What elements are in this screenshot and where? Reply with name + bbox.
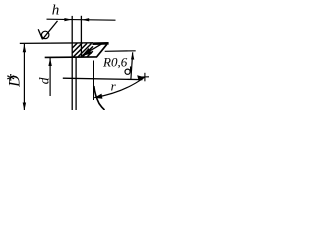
svg-text:*: * xyxy=(5,70,14,90)
node center mark horizontal xyxy=(141,76,149,78)
wire D* dimension line xyxy=(23,44,25,110)
arrow D* up xyxy=(23,44,26,52)
wire R0,6 shelf line xyxy=(105,50,136,53)
wire top surface line D level xyxy=(20,42,93,45)
svg-text:d: d xyxy=(37,77,52,84)
label b rotated small xyxy=(125,66,131,74)
arrow D* down xyxy=(23,103,26,111)
wire d dimension line xyxy=(49,58,51,96)
arrowheads xyxy=(23,18,145,111)
wire radius r line xyxy=(94,77,144,97)
arrow h right xyxy=(82,18,89,21)
svg-text:R0,6: R0,6 xyxy=(102,55,128,70)
arrow r at arc xyxy=(94,94,102,99)
wire right small dimension line xyxy=(131,52,133,79)
arrow R0,6 leader xyxy=(82,48,92,56)
wire dimension line h xyxy=(47,19,116,20)
wire extension line right (groove face) xyxy=(80,16,82,57)
node center mark vertical xyxy=(144,73,146,82)
wire bold hatch stroke right xyxy=(97,44,107,57)
svg-text:h: h xyxy=(52,2,60,18)
wire ground face vertical line xyxy=(93,61,95,101)
wire extension line left (shoulder face) xyxy=(71,16,73,110)
hatch strokes xyxy=(72,43,93,57)
arrow r at center xyxy=(137,75,144,81)
wire groove face edge lower xyxy=(75,57,77,110)
wire R0,6 leader line xyxy=(82,44,102,56)
wire groove bottom line xyxy=(45,56,97,59)
wire thick surface mark bar xyxy=(93,42,109,45)
arrow right dim up xyxy=(131,52,134,59)
arrow h left xyxy=(64,18,71,21)
surface finish symbol xyxy=(38,21,57,39)
wire wheel corner arc r xyxy=(94,86,105,110)
arrow d up xyxy=(48,58,51,66)
wire shaft surface line d level xyxy=(63,78,143,79)
